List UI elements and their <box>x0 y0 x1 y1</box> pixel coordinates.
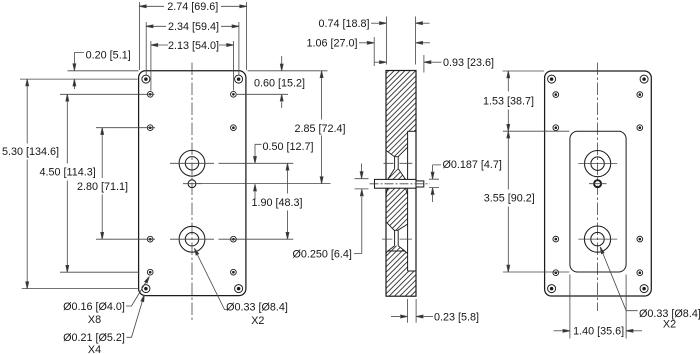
dim 1.40 extension lines <box>570 275 626 339</box>
dim 2.13 line <box>151 44 234 46</box>
svg-text:3.55 [90.2]: 3.55 [90.2] <box>484 193 535 205</box>
svg-text:2.34 [59.4]: 2.34 [59.4] <box>168 21 219 33</box>
LEFT VIEW GROUP <box>139 63 246 323</box>
dim 1.40 arrows <box>554 330 563 332</box>
row2 extension right <box>237 93 288 95</box>
dim 0.74 row <box>371 22 379 24</box>
corner hole TR right view <box>640 75 648 83</box>
top hole neck walls <box>395 157 399 169</box>
svg-text:2.74 [69.6]: 2.74 [69.6] <box>167 1 218 13</box>
pocket top edge <box>408 130 416 132</box>
svg-text:2.80 [71.1]: 2.80 [71.1] <box>77 181 128 193</box>
dim 0.50 lower arrow <box>254 192 256 200</box>
bottom hole lower funnel edges <box>388 246 405 251</box>
shaft row extension right <box>197 183 331 185</box>
big hole top crosshair <box>170 162 214 164</box>
dim 0.93 row <box>375 61 379 63</box>
section body outline <box>386 71 416 297</box>
shaft bar <box>375 179 417 188</box>
svg-text:1.40 [35.6]: 1.40 [35.6] <box>573 326 624 338</box>
big hole bottom crosshair <box>170 238 214 240</box>
SECTION VIEW GROUP <box>370 71 431 297</box>
bottom hole countersink V <box>386 222 408 231</box>
right view vertical centerline <box>597 63 599 312</box>
corner hole BR (0.21) <box>235 285 243 293</box>
corner hole TL (0.21) <box>142 75 150 83</box>
left view vertical centerline <box>191 63 193 323</box>
svg-text:0.60 [15.2]: 0.60 [15.2] <box>254 78 305 90</box>
left view plate outline <box>139 71 246 296</box>
svg-text:0.23 [5.8]: 0.23 [5.8] <box>434 311 479 323</box>
big hole top (0.33) right view <box>585 151 611 177</box>
dim 2.74 extension lines <box>139 2 246 70</box>
big hole bottom (0.33) right view <box>584 226 610 252</box>
shaft row tick through circle <box>183 183 201 185</box>
corner hole BL (0.21) <box>142 285 150 293</box>
bottom hole neck walls <box>395 230 399 246</box>
right view plate outline <box>545 71 652 296</box>
small holes right column right view <box>637 92 643 276</box>
dim 0.20 leader elbow <box>74 53 84 64</box>
row2 extension left <box>60 93 155 95</box>
section hatch: bottom block <box>386 251 416 296</box>
svg-text:X2: X2 <box>251 315 264 327</box>
svg-text:1.06 [27.0]: 1.06 [27.0] <box>307 38 358 50</box>
top hole row tick across section <box>384 162 413 164</box>
section hatch: triangle below bottom hole neck <box>388 246 405 251</box>
RIGHT VIEW GROUP <box>545 63 652 312</box>
row5 extension left <box>60 271 139 273</box>
hole2 row extension right <box>219 238 294 240</box>
leader big holes left view <box>197 253 229 310</box>
bottom block top edge <box>386 251 408 254</box>
svg-text:2.85 [72.4]: 2.85 [72.4] <box>295 123 346 135</box>
pocket bottom extension left <box>503 271 569 273</box>
leader corner holes 0.21 <box>127 300 143 338</box>
dim 0.60 arrows <box>281 56 283 64</box>
svg-text:5.30 [134.6]: 5.30 [134.6] <box>2 146 59 158</box>
dim 0.187 leader <box>433 165 441 172</box>
svg-text:0.20 [5.1]: 0.20 [5.1] <box>86 49 131 61</box>
section top extension lines <box>374 17 424 73</box>
dim 2.85 line <box>321 71 323 184</box>
dim 2.74 line <box>139 5 246 7</box>
dim 1.90 line <box>287 163 289 239</box>
pocket floor line <box>407 131 409 271</box>
small holes left column right view <box>553 92 559 276</box>
shaft end tick right view <box>589 183 607 185</box>
dim 4.50 line <box>66 94 68 272</box>
svg-text:X4: X4 <box>88 344 101 354</box>
svg-text:0.50 [12.7]: 0.50 [12.7] <box>263 141 314 153</box>
right view top edge extension left <box>503 70 545 72</box>
svg-text:0.93 [23.6]: 0.93 [23.6] <box>443 57 494 69</box>
big hole top (0.33) left view <box>179 150 205 176</box>
wedge edges below shaft <box>386 188 408 194</box>
row3 extension left <box>96 127 155 129</box>
svg-text:Ø0.21 [Ø5.2]: Ø0.21 [Ø5.2] <box>63 332 125 344</box>
dim 2.34 line <box>146 25 239 27</box>
dim 1.53 line <box>507 71 509 131</box>
leader 0.250 shaft <box>354 197 362 254</box>
dim 2.34 extension lines <box>146 22 239 76</box>
svg-text:Ø0.16 [Ø4.0]: Ø0.16 [Ø4.0] <box>63 301 125 313</box>
svg-text:X2: X2 <box>663 319 676 331</box>
big hole bottom (0.33) left view <box>179 226 205 252</box>
dim 0.23 row <box>391 316 400 318</box>
pocket top extension left <box>503 130 569 132</box>
dim 0.23 extension lines <box>408 299 417 323</box>
dim 2.13 extension lines <box>151 41 234 91</box>
shaft end cap <box>416 181 424 187</box>
section hatch: triangle below top hole neck <box>388 169 406 180</box>
shaft centerline <box>370 183 431 185</box>
dim 0.20 lower arrow <box>73 84 75 89</box>
dim 1.06 row <box>359 42 367 44</box>
section hatch: middle block <box>386 188 408 230</box>
corner hole BR right view <box>640 285 648 293</box>
leader small holes 0.16 <box>126 281 147 307</box>
dim 2.80 line <box>101 128 103 240</box>
dim 0.187 ticks <box>429 179 439 187</box>
big hole top crosshair right view <box>578 163 617 165</box>
svg-text:Ø0.250 [6.4]: Ø0.250 [6.4] <box>293 249 352 261</box>
big hole bottom crosshair right view <box>578 238 617 240</box>
svg-text:4.50 [114.3]: 4.50 [114.3] <box>40 167 96 179</box>
hole1 row extension right <box>219 162 294 164</box>
corner hole BL right view <box>548 285 556 293</box>
corner hole TR (0.21) <box>235 75 243 83</box>
svg-text:Ø0.187 [4.7]: Ø0.187 [4.7] <box>443 159 502 171</box>
corner hole row1 extension left <box>20 78 138 80</box>
dim 5.30 line <box>26 79 28 289</box>
svg-text:1.53 [38.7]: 1.53 [38.7] <box>483 96 534 108</box>
pocket bottom edge <box>408 270 416 272</box>
plate top edge extension left <box>68 70 139 72</box>
shaft end (dark) right view <box>594 180 601 187</box>
section hatch: top block <box>386 71 416 157</box>
svg-text:Ø0.33 [Ø8.4]: Ø0.33 [Ø8.4] <box>226 301 288 313</box>
top hole countersink V <box>386 147 408 157</box>
top hole lower funnel edges <box>388 169 406 180</box>
corner hole TL right view <box>548 75 556 83</box>
corner hole row6 extension left <box>22 288 139 290</box>
small holes (0.16) left column <box>147 91 153 275</box>
svg-text:X8: X8 <box>88 314 101 326</box>
shaft dia ticks left <box>355 179 369 189</box>
pocket recess outline <box>570 131 626 272</box>
dim 3.55 line <box>507 131 509 272</box>
plate top edge extension right <box>248 70 328 72</box>
dim 0.50 leader elbow <box>255 144 262 156</box>
svg-text:1.90 [48.3]: 1.90 [48.3] <box>252 197 303 209</box>
bottom hole row tick across section <box>382 238 412 240</box>
leader big holes right view <box>603 253 638 311</box>
svg-text:2.13 [54.0]: 2.13 [54.0] <box>168 40 219 52</box>
svg-text:0.74 [18.8]: 0.74 [18.8] <box>319 18 370 30</box>
row4 extension left <box>96 238 155 240</box>
small holes (0.16) right column <box>231 91 237 275</box>
shaft circle left view <box>188 180 196 188</box>
